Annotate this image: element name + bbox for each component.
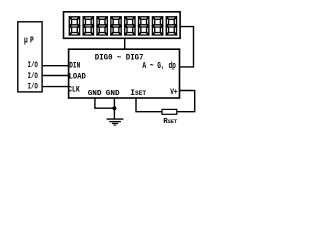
wire GND pin 2 down to ground [113,98,115,119]
svg-text:CLK: CLK [68,86,80,95]
digit 8 [166,17,176,35]
svg-text:V+: V+ [170,89,177,98]
digit 2 [83,17,93,35]
digit 1 [69,17,79,35]
wire I/O1 to DIN [42,65,69,67]
svg-text:I/O: I/O [28,72,38,81]
resistor RSET [162,109,177,114]
svg-text:P: P [30,37,34,46]
wire ISET to resistor [136,98,162,112]
svg-text:μ: μ [24,37,28,46]
microprocessor U2 box [18,22,42,92]
junction node [112,106,116,110]
svg-text:LOAD: LOAD [69,73,87,81]
digit 4 [111,17,121,35]
svg-text:A ~ G, dp: A ~ G, dp [142,62,176,71]
ground [107,119,124,125]
digit 7 [152,17,162,35]
wire GND horizontal [94,107,114,109]
svg-text:DIG0 ~ DIG7: DIG0 ~ DIG7 [95,54,144,62]
display driver U1 box [69,49,180,98]
digit 3 [97,17,107,35]
svg-text:RSET: RSET [163,118,177,126]
digit 6 [139,17,149,35]
svg-text:I/O: I/O [28,61,38,70]
wire GND pin 1 down [94,98,96,108]
wire I/O3 to CLK [42,86,69,88]
svg-text:DIN: DIN [69,62,80,71]
digit 5 [125,17,135,35]
wire V+ to resistor [177,91,195,112]
svg-text:ISET: ISET [130,89,146,98]
wire segment bus A~G,dp (display right to driver right) [180,27,194,67]
wire DIG bus (display to driver) [124,38,126,49]
svg-text:GND: GND [88,90,102,98]
display module DS1 (8-digit 7-segment LED) [64,12,181,39]
svg-text:GND: GND [106,90,120,98]
wire I/O2 to LOAD [42,75,69,77]
svg-text:I/O: I/O [28,83,38,92]
